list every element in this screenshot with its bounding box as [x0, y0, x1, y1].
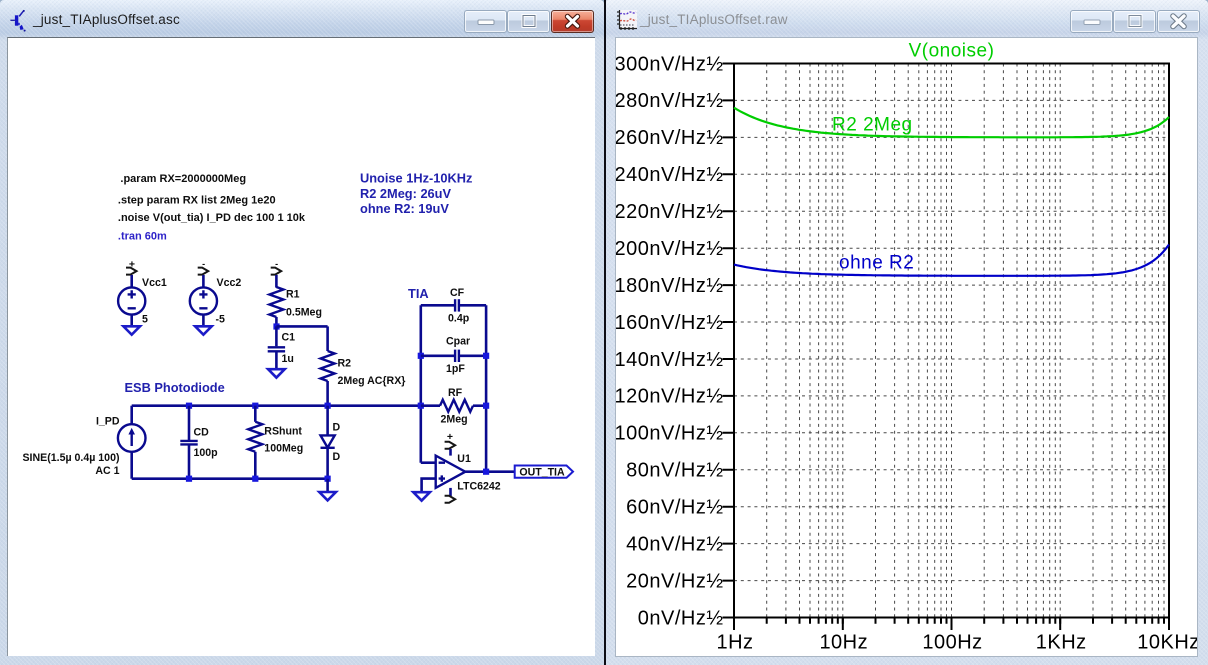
junction CD top: [186, 403, 192, 409]
junction CD bottom: [186, 476, 192, 482]
svg-text:180nV/Hz½: 180nV/Hz½: [616, 275, 724, 297]
svg-text:D: D: [333, 451, 341, 463]
node - flag opamp negative supply: [445, 488, 456, 503]
svg-text:220nV/Hz½: 220nV/Hz½: [616, 201, 724, 223]
svg-text:D: D: [333, 422, 341, 434]
svg-text:0.4p: 0.4p: [448, 312, 470, 324]
svg-text:.param RX=2000000Meg: .param RX=2000000Meg: [120, 173, 246, 185]
wire bottom bus: [132, 477, 328, 480]
x-axis decade ticks: [734, 618, 1169, 631]
svg-text:CD: CD: [194, 426, 210, 438]
svg-text:1KHz: 1KHz: [1036, 632, 1087, 654]
resistor R2 2Meg AC{RX}: [321, 326, 406, 405]
svg-text:260nV/Hz½: 260nV/Hz½: [616, 127, 724, 149]
svg-text:40nV/Hz½: 40nV/Hz½: [626, 533, 723, 555]
voltage source Vcc2 -5: [190, 275, 242, 326]
ground under Vcc1: [123, 326, 140, 334]
junction RF left: [418, 403, 424, 409]
wire opamp +input to ground: [422, 479, 436, 492]
svg-text:TIA: TIA: [408, 286, 429, 301]
junction Cpar right: [483, 353, 489, 359]
svg-text:100Meg: 100Meg: [264, 443, 303, 455]
svg-text:Vcc1: Vcc1: [142, 277, 167, 289]
svg-text:300nV/Hz½: 300nV/Hz½: [616, 53, 724, 75]
capacitor CD 100p: [180, 406, 218, 479]
svg-text:R2 2Meg: R2 2Meg: [832, 115, 913, 136]
diode D D: [321, 406, 341, 479]
svg-text:280nV/Hz½: 280nV/Hz½: [616, 90, 724, 112]
svg-text:Cpar: Cpar: [446, 335, 470, 347]
wire TIA left rail: [419, 305, 422, 462]
svg-text:.noise V(out_tia) I_PD dec 100: .noise V(out_tia) I_PD dec 100 1 10k: [118, 212, 306, 224]
svg-text:R2 2Meg: 26uV: R2 2Meg: 26uV: [360, 186, 451, 201]
wire junction to R2: [276, 325, 327, 328]
svg-text:0nV/Hz½: 0nV/Hz½: [638, 607, 724, 629]
current source I_PD SINE(1.5u 0.4u 100) AC 1: [22, 406, 145, 479]
curve R2 2Meg (green): [734, 108, 1169, 138]
svg-text:Unoise 1Hz-10KHz: Unoise 1Hz-10KHz: [360, 171, 472, 186]
junction RF right: [483, 403, 489, 409]
svg-text:RF: RF: [448, 387, 463, 399]
right window: LTspice waveform viewer _just_TIAplusOffset.raw (inactive): [604, 0, 1208, 665]
svg-text:140nV/Hz½: 140nV/Hz½: [616, 349, 724, 371]
junction RShunt top: [252, 403, 258, 409]
wire opamp output: [465, 470, 514, 473]
junction output: [483, 469, 489, 475]
svg-text:120nV/Hz½: 120nV/Hz½: [616, 386, 724, 408]
resistor RShunt 100Meg: [248, 406, 303, 479]
svg-text:ohne R2: 19uV: ohne R2: 19uV: [360, 201, 449, 216]
svg-text:60nV/Hz½: 60nV/Hz½: [626, 497, 723, 519]
op-amp U1 LTC6242: [421, 453, 501, 493]
svg-text:Vcc2: Vcc2: [217, 277, 242, 289]
svg-text:CF: CF: [450, 287, 465, 299]
capacitor Cpar 1pF: [421, 335, 486, 375]
svg-text:-5: -5: [216, 314, 226, 326]
svg-text:100p: 100p: [194, 447, 219, 459]
svg-text:1Hz: 1Hz: [716, 632, 753, 654]
capacitor C1 1u: [268, 326, 295, 369]
svg-text:AC 1: AC 1: [95, 465, 119, 477]
svg-text:LTC6242: LTC6242: [457, 481, 500, 493]
node - flag above Vcc2: [198, 259, 209, 275]
svg-text:RShunt: RShunt: [264, 426, 302, 438]
ground under Vcc2: [195, 326, 212, 334]
ground under C1: [268, 369, 285, 377]
svg-text:80nV/Hz½: 80nV/Hz½: [626, 460, 723, 482]
resistor RF 2Meg: [421, 387, 486, 425]
svg-text:2Meg: 2Meg: [441, 414, 468, 426]
svg-text:200nV/Hz½: 200nV/Hz½: [616, 238, 724, 260]
svg-text:.tran 60m: .tran 60m: [118, 230, 167, 242]
y-axis ticks: [723, 64, 735, 618]
LTspice app icon: [0, 0, 34, 34]
svg-text:20nV/Hz½: 20nV/Hz½: [626, 570, 723, 592]
svg-text:10Hz: 10Hz: [819, 632, 868, 654]
svg-text:OUT_TIA: OUT_TIA: [519, 466, 565, 478]
port OUT_TIA: [515, 466, 573, 479]
curve ohne R2 (blue): [734, 245, 1169, 276]
svg-text:1u: 1u: [282, 353, 294, 365]
resistor R1 0.5Meg: [269, 275, 322, 326]
plot axis frame: [734, 64, 1169, 618]
svg-text:5: 5: [142, 314, 148, 326]
capacitor CF 0.4p: [421, 287, 486, 324]
svg-text:U1: U1: [457, 453, 471, 465]
svg-text:100nV/Hz½: 100nV/Hz½: [616, 423, 724, 445]
voltage source Vcc1 5: [118, 275, 167, 326]
ground at opamp +input: [413, 492, 430, 500]
junction R2/D on top bus: [325, 403, 331, 409]
svg-text:.step param RX list 2Meg 1e20: .step param RX list 2Meg 1e20: [118, 195, 276, 207]
x-axis minor ticks: [767, 619, 1164, 624]
wire top bus: [132, 404, 421, 407]
svg-text:V(onoise): V(onoise): [909, 41, 995, 62]
svg-text:240nV/Hz½: 240nV/Hz½: [616, 164, 724, 186]
svg-text:I_PD: I_PD: [96, 416, 120, 428]
svg-text:ohne R2: ohne R2: [839, 253, 914, 274]
junction RShunt bottom: [252, 476, 258, 482]
junction D bottom / ground stub: [325, 476, 331, 482]
vertical log grid lines: [767, 64, 1164, 618]
svg-text:10KHz: 10KHz: [1137, 632, 1198, 654]
svg-text:C1: C1: [282, 332, 296, 344]
node + flag above Vcc1: [126, 259, 137, 275]
junction node R1/C1/R2: [273, 323, 279, 329]
junction Cpar left: [418, 353, 424, 359]
svg-text:R2: R2: [338, 358, 352, 370]
svg-text:160nV/Hz½: 160nV/Hz½: [616, 312, 724, 334]
node + flag opamp positive supply: [445, 431, 456, 456]
svg-text:0.5Meg: 0.5Meg: [286, 306, 322, 318]
node - flag above R1: [271, 259, 282, 275]
waveform window icon: [615, 9, 638, 32]
left window: LTspice schematic _just_TIAplusOffset.asc: [0, 0, 604, 665]
svg-text:100Hz: 100Hz: [922, 632, 982, 654]
svg-text:2Meg AC{RX}: 2Meg AC{RX}: [338, 375, 406, 387]
horizontal grid lines 20..280 nV: [734, 100, 1169, 580]
svg-text:R1: R1: [286, 289, 300, 301]
svg-text:ESB Photodiode: ESB Photodiode: [125, 380, 225, 395]
svg-text:1pF: 1pF: [446, 363, 465, 375]
svg-text:SINE(1.5µ 0.4µ 100): SINE(1.5µ 0.4µ 100): [22, 452, 119, 464]
wire TIA right rail: [485, 305, 488, 471]
